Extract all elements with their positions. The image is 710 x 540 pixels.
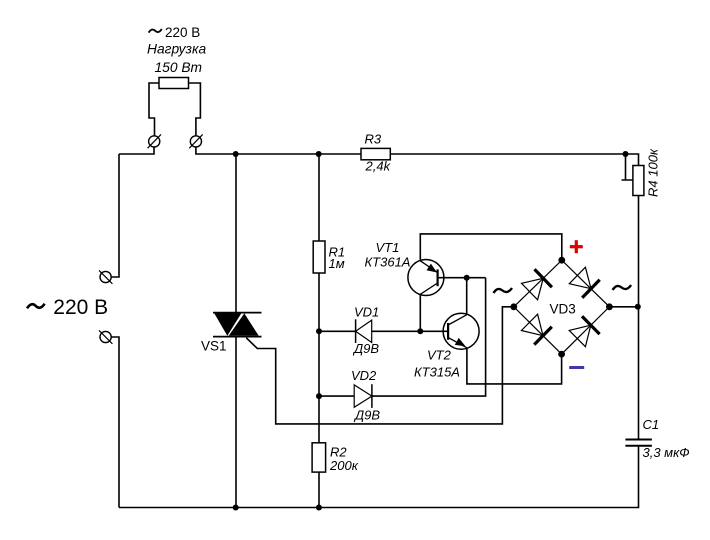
svg-text:3,3 мкФ: 3,3 мкФ xyxy=(643,445,690,460)
wire VT2 collector xyxy=(466,278,468,315)
node junction R1/top rail xyxy=(316,151,322,157)
wire R1 branch vertical xyxy=(318,154,320,443)
svg-text:200к: 200к xyxy=(329,458,359,473)
label minus (blue) xyxy=(569,366,584,369)
capacitor C1 xyxy=(625,440,652,446)
wire bridge right output xyxy=(609,306,637,308)
wire load left lead xyxy=(149,83,159,136)
wire top rail from right plug to R3 xyxy=(196,147,361,154)
node bridge right ac corner xyxy=(606,303,613,310)
terminal plug right (top) xyxy=(189,134,202,148)
label plus (red) xyxy=(570,240,583,253)
svg-text:VD3: VD3 xyxy=(550,302,576,317)
bridge diode VD3 upper-left xyxy=(522,269,552,300)
label ac tilde left of bridge xyxy=(494,288,513,293)
wire right vertical R4 to C1 xyxy=(638,196,640,440)
node junction R4 wiper tap xyxy=(623,151,629,157)
terminal mains upper xyxy=(99,270,112,283)
transistor VT1 (КТ361А, PNP) xyxy=(408,260,444,296)
terminal mains lower xyxy=(99,330,112,343)
bridge diode VD3 lower-left xyxy=(521,314,551,344)
bridge diode VD3 lower-right xyxy=(569,316,599,346)
wire left vertical top (to upper mains terminal) xyxy=(111,154,119,277)
diode VD1 xyxy=(356,319,372,343)
label ac tilde right of bridge xyxy=(613,285,632,290)
svg-text:C1: C1 xyxy=(643,417,660,432)
terminal plug left (top) xyxy=(148,134,161,148)
node junction R2/bottom rail xyxy=(316,505,322,511)
variable resistor R4 xyxy=(633,166,644,196)
svg-text:220 В: 220 В xyxy=(165,25,200,40)
wire VT2 emitter to bridge minus xyxy=(467,348,562,384)
svg-text:Д9В: Д9В xyxy=(352,341,379,356)
wire triac cathode vertical xyxy=(235,337,237,508)
label ~ 220 В (top) xyxy=(149,25,201,40)
wire VT1 collector xyxy=(419,294,421,331)
svg-text:220 В: 220 В xyxy=(53,296,108,319)
wire right vertical C1 to bottom rail xyxy=(119,446,639,508)
node junction VD1/R1 xyxy=(316,328,322,334)
node junction triac/bottom rail xyxy=(233,505,239,511)
svg-text:VD2: VD2 xyxy=(351,368,377,383)
svg-text:Д9В: Д9В xyxy=(353,407,380,422)
bridge diode VD3 upper-right xyxy=(569,267,599,298)
node bridge plus corner xyxy=(558,257,565,264)
svg-text:VT2: VT2 xyxy=(427,348,452,363)
svg-text:КТ361А: КТ361А xyxy=(365,255,411,270)
wire R4 wiper connection xyxy=(622,154,633,180)
svg-text:R4 100к: R4 100к xyxy=(646,148,661,197)
node junction triac/top rail xyxy=(233,151,239,157)
svg-text:150 Вт: 150 Вт xyxy=(155,60,203,75)
svg-text:R3: R3 xyxy=(365,132,382,147)
wire VD1 net xyxy=(319,330,448,332)
wire VT1 emitter to bridge plus xyxy=(420,234,562,260)
node junction VD2/R1 xyxy=(316,393,322,399)
wire VD2 anode xyxy=(319,395,354,397)
wire top rail left segment xyxy=(119,147,154,154)
node junction bridge output / right vertical xyxy=(635,304,641,310)
diode VD2 xyxy=(354,384,372,408)
resistor R3 xyxy=(361,148,390,159)
wire VD2 cathode to VT1 base net xyxy=(372,278,486,396)
label ~ 220 В (mains, large) xyxy=(27,296,108,319)
svg-text:VD1: VD1 xyxy=(354,305,379,320)
diode bridge VD3 frame xyxy=(514,260,610,354)
svg-text:КТ315А: КТ315А xyxy=(414,364,460,379)
load resistor (Нагрузка 150 Вт) xyxy=(159,78,189,89)
node bridge left ac corner xyxy=(510,303,517,310)
triac VS1 xyxy=(213,313,262,337)
node junction VD1/VT1 collector/VT2 base xyxy=(417,328,423,334)
svg-text:VT1: VT1 xyxy=(376,240,400,255)
resistor R1 xyxy=(313,241,325,273)
svg-text:2,4k: 2,4k xyxy=(365,159,392,174)
node bridge minus corner xyxy=(558,351,565,358)
wire left vertical bottom (from lower mains terminal) xyxy=(111,337,119,508)
wire triac anode vertical xyxy=(235,154,237,312)
svg-text:1м: 1м xyxy=(329,256,345,271)
wire load right lead xyxy=(189,83,201,136)
svg-text:VS1: VS1 xyxy=(201,339,227,354)
node junction VT1 base/VT2 collector xyxy=(464,275,470,281)
wire VT1 base to node xyxy=(438,277,486,279)
wire triac gate xyxy=(246,307,511,424)
wire R2 to bottom rail xyxy=(318,472,320,507)
wire top rail from R3 to right corner xyxy=(390,154,638,166)
svg-text:Нагрузка: Нагрузка xyxy=(147,42,206,57)
transistor VT2 (КТ315А, NPN) xyxy=(443,313,479,349)
resistor R2 xyxy=(312,443,326,472)
